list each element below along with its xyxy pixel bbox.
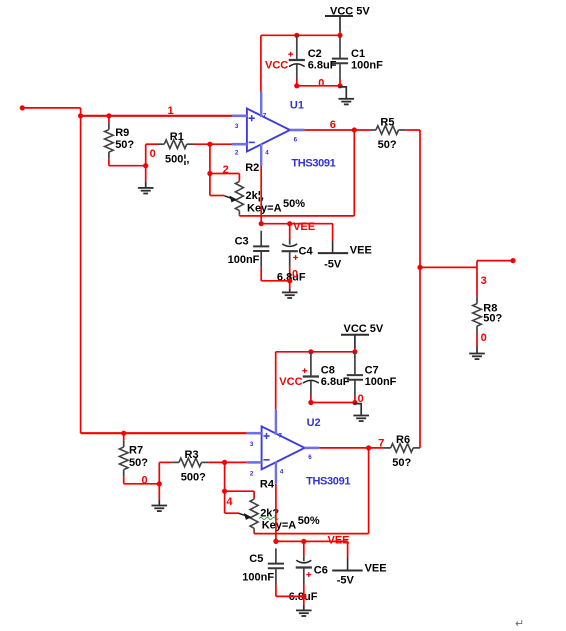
wire R5 to right vertical: [405, 129, 420, 131]
svg-text:4: 4: [265, 149, 269, 156]
wire VCC rail stage2: [276, 351, 355, 353]
U2 pin7 VCC line: [275, 409, 277, 435]
node dot C6 bottom: [301, 594, 306, 599]
svg-text:6.8uF: 6.8uF: [308, 60, 337, 72]
net label 0 at C1 bottom: [318, 78, 324, 90]
label R4 percent 50%: [298, 515, 320, 527]
svg-text:R6: R6: [396, 434, 410, 446]
wire 0-net line under C1 C2: [297, 85, 340, 87]
node R1 right junction (net 2): [207, 142, 212, 147]
svg-text:100nF: 100nF: [351, 60, 383, 72]
svg-text:50?: 50?: [129, 457, 148, 469]
U1 pin number 6: [294, 136, 298, 143]
resistor R6 50: [384, 434, 420, 469]
node dot C4 top: [287, 221, 292, 226]
node junction C7 top: [352, 349, 357, 354]
net label 6: [330, 119, 336, 131]
node right bus tap junction: [417, 265, 422, 270]
U2 pin number 6: [308, 454, 312, 461]
U2 -in pin stub: [247, 461, 262, 464]
wire U2 output to R6: [319, 447, 384, 449]
wire output tap horizontal: [420, 266, 477, 268]
svg-text:100nF: 100nF: [242, 572, 274, 584]
svg-text:C6: C6: [314, 564, 328, 576]
node dot C7 bottom: [352, 400, 357, 405]
svg-text:R7: R7: [129, 444, 143, 456]
svg-text:50?: 50?: [115, 139, 134, 151]
svg-text:7: 7: [279, 432, 283, 439]
capacitor C5 100nF: [242, 548, 284, 596]
node U2 VEE pin junction: [273, 539, 278, 544]
capacitor C3 100nF: [228, 231, 270, 281]
svg-text:6: 6: [330, 119, 336, 131]
U1 pin number 7: [263, 112, 267, 119]
resistor R3 500: [172, 449, 246, 483]
capacitor C2 6.8uF electrolytic: [288, 35, 337, 86]
resistor R1 500: [158, 131, 233, 166]
net label 1: [168, 105, 174, 117]
U1 pin number 3: [235, 123, 239, 130]
ground at 0 node stage1: [138, 166, 154, 194]
svg-text:Key=A: Key=A: [262, 520, 297, 532]
wire input top segment: [22, 107, 80, 109]
svg-text:U1: U1: [290, 99, 304, 111]
svg-text:U2: U2: [307, 417, 321, 429]
svg-text:3: 3: [481, 275, 487, 287]
power VEE supply symbol stage1: [318, 244, 372, 270]
svg-text:500?: 500?: [181, 471, 206, 483]
wire U1 output to R5: [304, 129, 369, 131]
net label 4: [226, 496, 233, 508]
wire U1 feedback vertical: [353, 130, 355, 216]
svg-text:THS3091: THS3091: [291, 158, 335, 170]
net label 0 at C7 bottom: [358, 393, 364, 405]
input terminal dot: [20, 105, 25, 110]
U2 pin number 7: [279, 432, 283, 439]
wire VEE net horizontal stage1: [261, 223, 333, 225]
svg-text:0: 0: [318, 78, 324, 90]
svg-text:2: 2: [235, 149, 239, 156]
svg-text:6.8uF: 6.8uF: [321, 376, 350, 388]
node dot pot top branch: [207, 171, 212, 176]
wire node2 vertical: [209, 144, 211, 195]
label R4 value 2k: [260, 507, 279, 519]
svg-text:VCC: VCC: [265, 59, 288, 71]
U2 pin4 VEE line blue part: [275, 462, 277, 484]
wire VEE net horizontal stage2: [276, 540, 348, 542]
node dot C1 bottom: [337, 83, 342, 88]
svg-text:-5V: -5V: [324, 259, 342, 271]
svg-text:6: 6: [308, 454, 312, 461]
svg-text:3: 3: [235, 123, 239, 130]
node U2 output junction (net 7): [366, 445, 371, 450]
svg-text:C1: C1: [351, 48, 365, 60]
svg-text:VCC: VCC: [279, 376, 302, 388]
wire node4 vertical: [224, 462, 226, 513]
svg-text:VCC 5V: VCC 5V: [330, 5, 370, 17]
pot R4 wiper arrow: [239, 513, 252, 520]
svg-text:VEE: VEE: [350, 244, 372, 256]
svg-text:VEE: VEE: [293, 221, 315, 233]
svg-text:C4: C4: [299, 246, 314, 258]
wire 0-net line under C5 C6: [276, 595, 304, 597]
potentiometer R2 2k body: [235, 180, 243, 216]
label THS3091 U2: [306, 475, 350, 487]
wire U2 feedback horizontal: [254, 533, 369, 535]
svg-text:R5: R5: [380, 116, 394, 128]
svg-text:0: 0: [292, 269, 298, 281]
wire input bus stage2 (to U2 +in): [81, 432, 247, 434]
node dot C4 bottom: [287, 278, 292, 283]
svg-text:R4: R4: [260, 478, 275, 490]
ground below C1: [339, 86, 355, 105]
wire node4 to R4 top: [225, 491, 255, 498]
wire 0-net line under C7 C8: [311, 402, 355, 404]
wire node2 to R2 top: [210, 174, 240, 181]
svg-text:0: 0: [142, 475, 148, 487]
capacitor C8 6.8uF electrolytic: [302, 352, 350, 403]
net label VEE stage1 red: [293, 221, 315, 233]
svg-text:R9: R9: [115, 127, 129, 139]
node R9 top junction: [106, 113, 111, 118]
svg-text:50?: 50?: [378, 139, 397, 151]
node dot C6 top: [301, 539, 306, 544]
node input junction: [78, 113, 83, 118]
wire R9 bottom to 0 node: [109, 165, 146, 167]
wire right vertical bus: [419, 130, 421, 448]
svg-text:500¦,: 500¦,: [165, 154, 190, 166]
svg-text:3: 3: [250, 441, 254, 448]
svg-text:THS3091: THS3091: [306, 475, 350, 487]
wire VEE2 drop to supply bar: [347, 541, 349, 570]
label R4: [260, 478, 275, 490]
svg-text:50?: 50?: [483, 312, 502, 324]
svg-text:C8: C8: [321, 364, 335, 376]
node dot C2 bottom: [294, 83, 299, 88]
net label 3: [481, 275, 487, 287]
carriage return mark bottom right: [515, 618, 524, 630]
net label 0 at R8: [481, 332, 487, 344]
svg-text:1: 1: [168, 105, 174, 117]
svg-text:C7: C7: [365, 364, 379, 376]
wire VCC2 symbol to rail: [354, 335, 356, 352]
wire output tap step up: [476, 261, 478, 268]
U1 pin4 VEE red part: [260, 166, 262, 224]
wire U2 feedback vertical: [368, 448, 370, 534]
net label VEE stage2 red: [328, 534, 350, 546]
svg-text:0: 0: [150, 148, 156, 160]
label R2: [245, 162, 259, 174]
wire VCC rail drop to U1 pin7: [260, 35, 262, 91]
svg-text:C2: C2: [308, 48, 322, 60]
svg-text:7: 7: [378, 438, 384, 450]
wire VCC symbol to rail: [339, 16, 341, 35]
wire R6 to right vertical: [419, 447, 421, 449]
svg-text:0: 0: [481, 332, 487, 344]
svg-text:-5V: -5V: [337, 575, 355, 587]
capacitor C4 6.8uF electrolytic: [277, 224, 314, 284]
node R3 right junction (net 4): [222, 460, 227, 465]
power VCC supply symbol stage2: [341, 323, 384, 335]
resistor R7 50: [119, 433, 148, 484]
node U1 output junction (net 6): [352, 127, 357, 132]
U2 pin number 4: [280, 468, 284, 475]
svg-text:↵: ↵: [515, 618, 524, 630]
net label VCC red at C8: [279, 376, 302, 388]
svg-text:C5: C5: [249, 553, 263, 565]
U1 pin4 VEE line blue part: [260, 144, 262, 166]
U2 pin4 VEE red part: [275, 484, 277, 542]
node dot C8 bottom: [308, 400, 313, 405]
potentiometer R4 2k body: [250, 498, 258, 533]
U2 output pin stub: [305, 447, 320, 450]
svg-text:50?: 50?: [392, 457, 411, 469]
power VCC supply symbol (VCC 5V) top: [325, 5, 370, 17]
U1 output pin stub: [290, 129, 305, 132]
node junction C8 top: [308, 349, 313, 354]
wire output tap to terminal: [477, 260, 513, 262]
capacitor C1 100nF: [332, 35, 383, 86]
capacitor C7 100nF: [347, 352, 397, 403]
capacitor C6 6.8uF electrolytic: [289, 541, 328, 603]
svg-text:50%: 50%: [283, 198, 305, 210]
wire VCC rail stage1: [261, 34, 340, 36]
wire R7 bottom to 0 node: [124, 483, 160, 485]
U2 pin number 3: [250, 441, 254, 448]
wire input bus to U1 +in (net 1): [81, 115, 232, 117]
net label 0 at C4: [292, 269, 298, 281]
wire wiper from node4: [225, 512, 240, 514]
squiggle under 2k value: [259, 517, 278, 519]
op-amp U2 THS3091 triangle: [262, 426, 305, 469]
node R7 top junction: [121, 431, 126, 436]
resistor R5 50: [369, 116, 405, 151]
power VEE supply symbol stage2: [332, 562, 386, 586]
output terminal dot: [510, 258, 515, 263]
net label 0 stage2: [142, 475, 148, 487]
svg-text:R3: R3: [185, 449, 199, 461]
svg-text:4: 4: [226, 496, 233, 508]
ground below R8: [469, 347, 485, 360]
U1 +in pin stub: [232, 115, 247, 118]
node 0 junction stage2: [157, 481, 162, 486]
ground below C6: [296, 596, 312, 616]
svg-text:6: 6: [294, 136, 298, 143]
label R4 Key=A: [262, 520, 297, 532]
wire VCC2 rail drop to U2 pin7: [275, 352, 277, 410]
op-amp U1 THS3091 triangle: [247, 109, 290, 152]
svg-text:R2: R2: [245, 162, 259, 174]
net label 2: [223, 164, 229, 176]
label THS3091 U1: [291, 158, 335, 170]
U2 pin number 2: [250, 470, 254, 477]
wire 0-net line under C3 C4: [261, 280, 290, 282]
svg-text:4: 4: [280, 468, 284, 475]
node junction C2 top: [294, 33, 299, 38]
node dot pot top branch stage2: [222, 489, 227, 494]
U1 -in pin stub: [232, 143, 247, 146]
ground below C7: [353, 403, 369, 422]
svg-text:VCC 5V: VCC 5V: [344, 323, 384, 335]
ground at 0 node stage2: [152, 484, 168, 511]
U1 pin7 VCC line: [260, 92, 262, 118]
label U1: [290, 99, 304, 111]
wire U1 feedback horizontal: [239, 215, 354, 217]
node U1 VEE pin junction: [259, 221, 264, 226]
resistor R9 50: [105, 116, 135, 166]
svg-text:R1: R1: [170, 131, 184, 143]
label R2 percent 50%: [283, 198, 305, 210]
wire 0 node up to R3: [159, 462, 172, 483]
svg-text:100nF: 100nF: [228, 254, 260, 266]
svg-text:7: 7: [263, 112, 267, 119]
U2 +in pin stub: [247, 432, 262, 435]
wire input corner down: [80, 108, 82, 116]
wire VEE drop to supply bar: [332, 224, 334, 253]
wire 0 node up to R1: [146, 144, 158, 166]
node junction C1 top: [337, 33, 342, 38]
svg-text:2: 2: [250, 470, 254, 477]
label U2: [307, 417, 321, 429]
node 0 junction stage1: [143, 163, 148, 168]
resistor R8 50: [473, 267, 503, 346]
label R2 value 2k: [246, 190, 264, 202]
net label 7: [378, 438, 384, 450]
net label 0 stage1: [150, 148, 156, 160]
U1 pin number 2: [235, 149, 239, 156]
svg-text:2: 2: [223, 164, 229, 176]
svg-text:50%: 50%: [298, 515, 320, 527]
label R2 Key=A: [247, 202, 282, 214]
pot R2 wiper arrow: [225, 196, 238, 203]
U1 pin number 4: [265, 149, 269, 156]
net label VCC (red) at C2: [265, 59, 288, 71]
svg-text:VEE: VEE: [365, 562, 387, 574]
svg-text:VEE: VEE: [328, 534, 350, 546]
svg-text:C3: C3: [235, 235, 249, 247]
wire wiper from node2: [210, 195, 225, 197]
svg-text:Key=A: Key=A: [247, 202, 282, 214]
wire long vertical input to stage2: [80, 116, 82, 433]
ground below C4: [282, 281, 298, 298]
svg-text:100nF: 100nF: [365, 376, 397, 388]
